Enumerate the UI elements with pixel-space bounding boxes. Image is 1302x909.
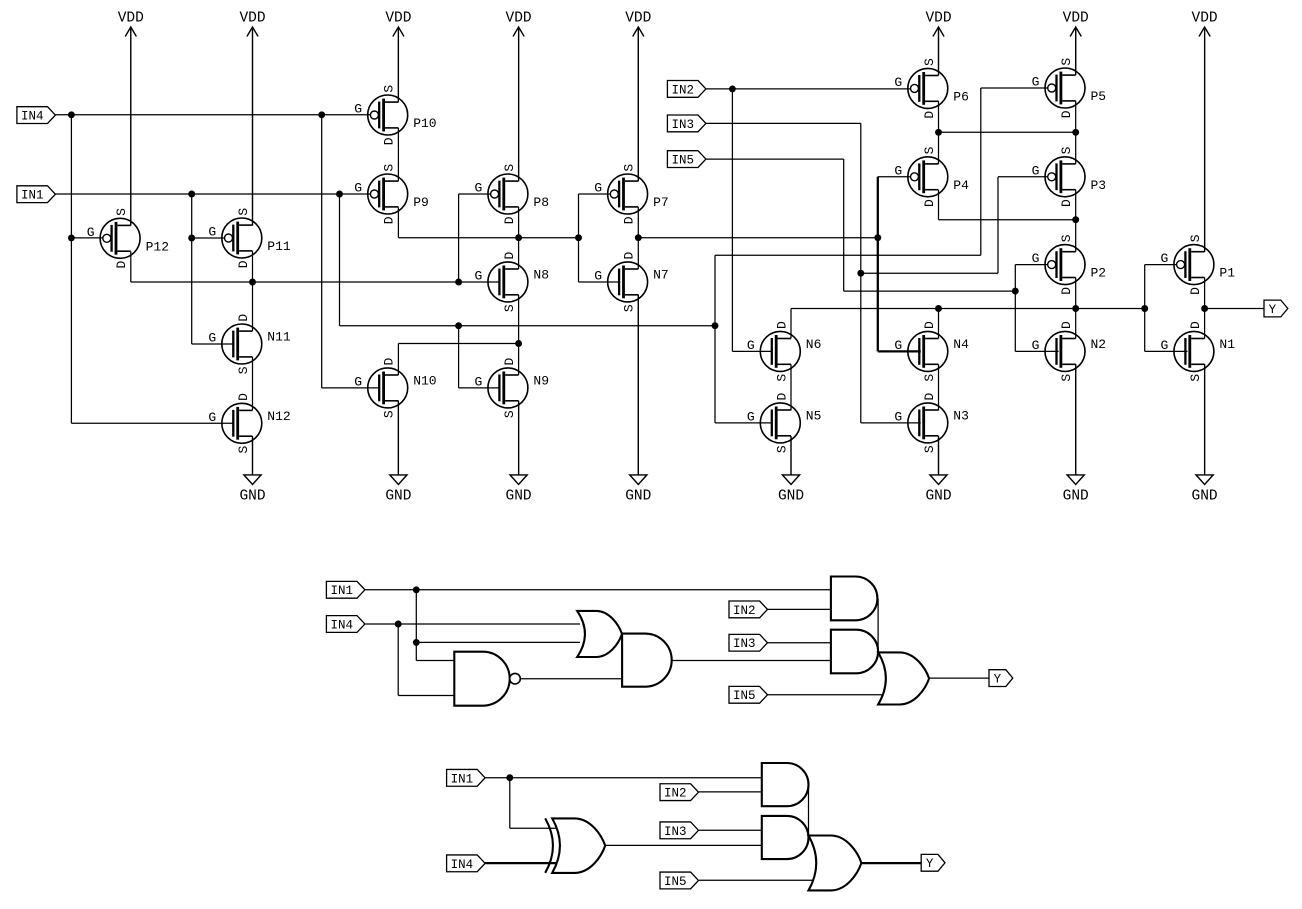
junction P11 gate: [188, 235, 195, 242]
input label IN2 (bot IN2): [660, 784, 699, 801]
wire node A to P8 gate: [459, 193, 491, 195]
wire rail3 P10 drain to P9 source: [397, 128, 399, 181]
power symbol GND (rail5): [625, 295, 651, 505]
wire VDD rail 6: [938, 27, 940, 75]
wire node D to P1 gate: [1145, 264, 1177, 266]
junction IN1 second branch: [336, 191, 343, 198]
svg-text:IN5: IN5: [664, 875, 687, 889]
svg-text:GND: GND: [625, 489, 651, 505]
input label IN1 (bot IN1): [447, 769, 486, 786]
wire mid IN1 to OR input: [416, 641, 580, 643]
svg-text:D: D: [236, 260, 251, 268]
svg-text:G: G: [354, 102, 362, 117]
svg-text:D: D: [382, 216, 397, 224]
and gate U3: [622, 634, 672, 687]
wire mid AND2 output: [672, 660, 831, 662]
svg-text:Y: Y: [1269, 303, 1277, 317]
transistor P6 (PMOS): [894, 58, 969, 119]
junction IN4 line: [68, 111, 75, 118]
wire IN5 to P2 gate: [1015, 264, 1047, 266]
svg-text:D: D: [502, 252, 517, 260]
wire rail4 N8 source to N9 drain: [518, 295, 520, 375]
wire rail7 P5 drain to P3 source: [1075, 101, 1077, 164]
transistor P7 (PMOS): [594, 164, 669, 225]
wire IN1 vertical drop: [191, 194, 193, 344]
svg-text:G: G: [594, 181, 602, 196]
svg-text:IN4: IN4: [330, 618, 353, 632]
wire IN1 vertical to P5: [980, 88, 982, 255]
svg-text:S: S: [774, 445, 789, 453]
junction P12 gate: [68, 234, 75, 241]
transistor N4 (NMOS): [894, 321, 969, 382]
junction node D inverter input: [1141, 305, 1148, 312]
input label IN5 (mid IN5): [729, 686, 768, 703]
transistor P2 (PMOS): [1032, 234, 1107, 295]
junction mid IN1 branch: [413, 639, 420, 646]
wire IN1 to N9 gate: [459, 387, 501, 389]
wire bot IN1 vertical: [509, 778, 511, 829]
or gate U2: [577, 611, 622, 657]
svg-text:G: G: [894, 338, 902, 353]
svg-text:P12: P12: [146, 239, 169, 254]
power symbol GND (rail8): [1192, 364, 1218, 504]
power symbol VDD (rail5): [625, 11, 651, 182]
wire IN1 horizontal to P9 gate: [55, 193, 370, 195]
wire rail7 P3 drain to P2 source: [1075, 190, 1077, 252]
wire VDD rail 3: [397, 27, 399, 102]
output label Y (bot Y): [921, 854, 945, 871]
junction mid IN4: [395, 621, 402, 628]
svg-text:S: S: [114, 208, 129, 216]
svg-text:D: D: [502, 216, 517, 224]
junction IN3 branch: [857, 270, 864, 277]
junction node C rail5: [635, 234, 642, 241]
svg-text:G: G: [208, 225, 216, 240]
junction node D N4 drain: [935, 305, 942, 312]
svg-text:P5: P5: [1091, 89, 1107, 104]
svg-text:S: S: [1059, 374, 1074, 382]
wire mid IN1 to AND gate: [365, 589, 831, 591]
wire mid AND to OR3: [877, 598, 879, 652]
input label IN3 (top IN3): [667, 115, 706, 132]
input label IN5 (bot IN5): [660, 872, 699, 889]
svg-text:G: G: [894, 409, 902, 424]
svg-text:G: G: [474, 181, 482, 196]
svg-text:S: S: [382, 164, 397, 172]
wire rail6 N3 source to GND: [938, 436, 940, 475]
power symbol GND (rail3): [385, 401, 411, 505]
power symbol GND (rail4): [506, 401, 532, 505]
junction node A rail2: [249, 279, 256, 286]
svg-text:G: G: [208, 410, 216, 425]
wire VDD rail 1: [130, 27, 132, 225]
wire VDD rail 2: [252, 27, 254, 225]
svg-text:GND: GND: [778, 489, 804, 505]
svg-text:D: D: [114, 261, 129, 269]
or gate U6 (3-input): [878, 652, 929, 704]
transistor N1 (NMOS): [1160, 321, 1235, 382]
wire VDD rail 5: [637, 27, 639, 181]
svg-text:VDD: VDD: [506, 11, 532, 27]
svg-text:S: S: [1188, 234, 1203, 242]
wire node A horizontal: [131, 281, 501, 283]
wire IN2 vertical: [731, 89, 733, 352]
wire rail4 P8 drain to N8 drain: [518, 207, 520, 269]
svg-text:D: D: [922, 321, 937, 329]
input label IN4 (bot IN4): [447, 855, 486, 872]
wire mid IN3 to AND: [768, 642, 831, 644]
svg-text:N4: N4: [953, 337, 969, 352]
svg-text:GND: GND: [1063, 489, 1089, 505]
wire N5 source to GND: [790, 436, 792, 475]
svg-text:G: G: [1032, 338, 1040, 353]
junction mid IN1: [413, 586, 420, 593]
svg-text:P3: P3: [1091, 178, 1107, 193]
svg-text:D: D: [922, 199, 937, 207]
transistor N10 (NMOS): [354, 358, 436, 419]
svg-text:GND: GND: [925, 489, 951, 505]
svg-text:D: D: [236, 393, 251, 401]
transistor P4 (PMOS): [894, 146, 969, 207]
wire IN4 vertical drop: [70, 115, 72, 424]
wire node B horizontal: [398, 237, 578, 239]
wire rail8 N1 source to GND: [1204, 364, 1206, 475]
svg-text:N10: N10: [413, 373, 436, 388]
wire IN1 to P5 gate: [981, 87, 1048, 89]
wire IN3 horizontal branch: [861, 272, 998, 274]
junction bot IN1: [506, 774, 513, 781]
junction node A P8 branch: [455, 279, 462, 286]
svg-text:IN1: IN1: [451, 772, 474, 786]
input label IN5 (top IN5): [667, 151, 706, 168]
svg-text:S: S: [622, 164, 637, 172]
wire rail3 N10 source to GND: [397, 401, 399, 475]
svg-text:IN5: IN5: [671, 154, 694, 168]
wire bot IN5 to OR: [699, 879, 818, 881]
svg-text:D: D: [622, 252, 637, 260]
wire N6 source to N5 drain: [790, 364, 792, 410]
svg-text:S: S: [502, 410, 517, 418]
junction IN4 to N10 branch: [318, 111, 325, 118]
svg-text:S: S: [1059, 58, 1074, 66]
transistor P10 (PMOS): [354, 85, 436, 146]
svg-text:IN3: IN3: [664, 825, 687, 839]
svg-text:D: D: [774, 321, 789, 329]
svg-text:G: G: [208, 331, 216, 346]
svg-text:G: G: [747, 409, 755, 424]
wire node B to P7 gate: [579, 193, 611, 195]
wire rail8 P1 drain to N1 drain: [1204, 278, 1206, 339]
svg-text:D: D: [1059, 199, 1074, 207]
svg-text:N1: N1: [1219, 337, 1235, 352]
svg-text:VDD: VDD: [239, 11, 265, 27]
transistor P9 (PMOS): [354, 164, 429, 225]
svg-text:S: S: [1188, 374, 1203, 382]
wire bot OR output to Y: [861, 862, 921, 864]
power symbol VDD (rail6): [925, 11, 951, 76]
svg-text:D: D: [622, 216, 637, 224]
svg-text:S: S: [622, 304, 637, 312]
junction node B rail4: [515, 234, 522, 241]
wire rail2 N11 source to N12 drain: [252, 357, 254, 411]
wire P12 drain down: [130, 252, 132, 283]
wire rail4 N9 source to GND: [518, 401, 520, 475]
svg-text:VDD: VDD: [1192, 11, 1218, 27]
junction node D rail7: [1072, 305, 1079, 312]
wire IN5 vertical short: [1014, 265, 1016, 352]
wire IN5 horizontal: [706, 158, 844, 160]
junction IN5 branch: [1012, 288, 1019, 295]
transistor P5 (PMOS): [1032, 58, 1107, 119]
wire IN1 horizontal to P5 branch: [715, 254, 981, 256]
wire bot IN1 to XOR input: [510, 827, 556, 829]
svg-text:S: S: [236, 446, 251, 454]
power symbol VDD (rail7): [1063, 11, 1089, 76]
svg-text:G: G: [87, 225, 95, 240]
and gate U8: [762, 763, 809, 806]
svg-text:G: G: [1032, 163, 1040, 178]
junction P5 drain: [1072, 129, 1079, 136]
wire rail6 N4 source to N3 drain: [938, 364, 940, 410]
wire mid NAND output: [520, 678, 622, 680]
wire mid OR3 output to Y: [929, 677, 989, 679]
svg-text:IN1: IN1: [330, 584, 353, 598]
svg-text:G: G: [894, 163, 902, 178]
transistor P1 (PMOS): [1160, 234, 1235, 295]
wire IN4 to N10 gate: [322, 387, 381, 389]
wire node B vertical: [578, 194, 580, 282]
svg-text:G: G: [594, 268, 602, 283]
wire IN1 second vertical: [339, 194, 341, 326]
output label Y (top Y): [1264, 300, 1288, 317]
svg-text:IN4: IN4: [451, 858, 474, 872]
input label IN1 (mid IN1): [326, 581, 365, 598]
wire IN5 horizontal branch: [844, 290, 1016, 292]
wire rail6 P6 drain to P4 source: [938, 101, 940, 164]
wire mid IN2 to AND: [768, 608, 831, 610]
power symbol GND (rail2): [239, 436, 265, 504]
svg-text:S: S: [1059, 146, 1074, 154]
input label IN1 (top IN1): [17, 186, 56, 203]
svg-text:Y: Y: [926, 857, 934, 871]
wire mid to NAND input A: [416, 660, 454, 662]
svg-text:P11: P11: [267, 239, 291, 254]
svg-text:P10: P10: [413, 116, 436, 131]
power symbol VDD (rail4): [506, 11, 532, 182]
wire IN1 long horizontal: [340, 325, 716, 327]
wire N6 drain up: [790, 309, 792, 339]
svg-text:IN3: IN3: [671, 118, 694, 132]
junction IN1 line: [188, 191, 195, 198]
junction N8 source node: [515, 340, 522, 347]
svg-text:GND: GND: [239, 489, 265, 505]
svg-text:IN2: IN2: [671, 83, 694, 97]
svg-text:D: D: [502, 358, 517, 366]
svg-text:VDD: VDD: [925, 11, 951, 27]
svg-text:S: S: [1059, 234, 1074, 242]
svg-text:N5: N5: [806, 408, 822, 423]
transistor P12 (PMOS): [87, 208, 169, 269]
svg-text:GND: GND: [506, 489, 532, 505]
svg-text:D: D: [1059, 287, 1074, 295]
wire IN2 to N6 gate: [732, 350, 772, 352]
svg-text:VDD: VDD: [118, 11, 144, 27]
svg-text:G: G: [747, 338, 755, 353]
power symbol VDD (rail8): [1192, 11, 1218, 252]
power symbol GND (rail6): [925, 436, 951, 504]
junction P6 drain: [935, 129, 942, 136]
input label IN4 (top IN4): [17, 107, 56, 124]
junction IN1 mid vertical: [712, 322, 719, 329]
wire P6-P5 drain tie: [939, 131, 1076, 133]
svg-text:P4: P4: [953, 178, 969, 193]
svg-text:N3: N3: [953, 408, 969, 423]
svg-text:S: S: [922, 146, 937, 154]
svg-text:G: G: [474, 268, 482, 283]
transistor P3 (PMOS): [1032, 146, 1107, 207]
svg-text:N6: N6: [806, 337, 822, 352]
svg-text:D: D: [774, 393, 789, 401]
wire node C bold vertical: [877, 177, 879, 352]
svg-text:S: S: [236, 208, 251, 216]
svg-text:P6: P6: [953, 89, 969, 104]
wire IN3 vertical to P3: [997, 177, 999, 273]
svg-text:GND: GND: [385, 489, 411, 505]
output label Y (mid Y): [989, 670, 1013, 687]
transistor N9 (NMOS): [474, 358, 549, 419]
wire node C to P4 gate: [878, 176, 912, 178]
svg-text:IN5: IN5: [733, 689, 756, 703]
wire IN5 vertical: [843, 159, 845, 291]
transistor N2 (NMOS): [1032, 321, 1107, 382]
svg-text:IN4: IN4: [21, 110, 44, 124]
svg-text:Y: Y: [994, 673, 1002, 687]
svg-text:D: D: [922, 393, 937, 401]
wire IN1 to P11 gate: [192, 237, 225, 239]
wire IN3 horizontal: [706, 122, 861, 124]
wire mid IN1 vertical: [415, 590, 417, 661]
svg-text:S: S: [236, 366, 251, 374]
wire IN1 vertical to N9: [458, 326, 460, 388]
wire N10 drain up: [397, 344, 399, 376]
junction IN2 line: [729, 85, 736, 92]
svg-text:GND: GND: [1192, 489, 1218, 505]
wire IN1 to N5 gate: [715, 422, 773, 424]
wire rail5 N7 source to GND: [637, 295, 639, 475]
input label IN3 (mid IN3): [729, 634, 768, 651]
wire IN3 vertical: [860, 123, 862, 423]
wire N10 drain to node: [398, 343, 518, 345]
svg-text:G: G: [1032, 251, 1040, 266]
junction node C bold vertical: [874, 234, 881, 241]
or gate U10 (3-input): [809, 836, 862, 891]
svg-text:P9: P9: [413, 195, 429, 210]
wire rail2 P11 drain to N11 drain: [252, 251, 254, 331]
svg-text:N9: N9: [533, 373, 549, 388]
svg-text:G: G: [1160, 338, 1168, 353]
svg-text:S: S: [382, 85, 397, 93]
svg-text:D: D: [1059, 110, 1074, 118]
wire rail2 N12 source to GND: [252, 436, 254, 475]
wire IN4 to P12 gate: [71, 237, 102, 239]
wire bot IN2 to AND: [699, 791, 762, 793]
wire node B to N7 gate: [579, 281, 621, 283]
wire IN4 vertical to N10: [321, 115, 323, 388]
svg-text:D: D: [1188, 287, 1203, 295]
svg-text:S: S: [774, 374, 789, 382]
junction node B P7/N7 branch: [575, 234, 582, 241]
junction Y rail8: [1201, 305, 1208, 312]
transistor N3 (NMOS): [894, 393, 969, 454]
power symbol GND (gnd rail): [778, 436, 804, 504]
svg-text:N12: N12: [267, 409, 290, 424]
wire bot AND to OR: [808, 785, 810, 836]
wire IN1 vertical mid: [714, 255, 716, 423]
svg-text:G: G: [474, 374, 482, 389]
transistor N11 (NMOS): [208, 314, 291, 375]
input label IN2 (mid IN2): [729, 601, 768, 618]
wire bot IN3 to AND: [699, 829, 762, 831]
wire node C horizontal: [638, 237, 878, 239]
transistor P8 (PMOS): [474, 164, 549, 225]
and gate U5: [831, 630, 878, 674]
svg-text:G: G: [1160, 251, 1168, 266]
transistor N5 (NMOS): [747, 393, 822, 454]
wire rail7 N2 source to GND: [1075, 364, 1077, 475]
wire VDD rail 4: [518, 27, 520, 181]
svg-text:N7: N7: [653, 267, 669, 282]
svg-text:N2: N2: [1091, 337, 1107, 352]
wire bot IN4 to XOR input: [484, 862, 563, 864]
power symbol GND (rail7): [1063, 364, 1089, 504]
wire IN4 horizontal to P10 gate: [55, 114, 370, 116]
transistor N6 (NMOS): [747, 321, 822, 382]
wire IN3 to N3 gate: [861, 422, 921, 424]
svg-text:N11: N11: [267, 330, 291, 345]
svg-text:G: G: [354, 181, 362, 196]
and gate U4: [831, 577, 877, 621]
input label IN2 (top IN2): [667, 81, 706, 98]
wire node D vertical to P1/N1 gates: [1144, 265, 1146, 352]
wire node D horizontal: [791, 308, 1145, 310]
wire IN4 to N12 gate: [71, 422, 233, 424]
transistor N7 (NMOS): [594, 252, 669, 313]
svg-text:VDD: VDD: [625, 11, 651, 27]
svg-text:D: D: [1188, 321, 1203, 329]
wire IN3 to P3 gate: [998, 176, 1048, 178]
transistor N12 (NMOS): [208, 393, 290, 454]
wire rail7 P2 drain to N2 drain: [1075, 278, 1077, 339]
svg-text:P7: P7: [653, 195, 669, 210]
svg-text:D: D: [382, 137, 397, 145]
svg-text:N8: N8: [533, 267, 549, 282]
svg-text:G: G: [354, 374, 362, 389]
wire rail5 P7 drain to N7 drain: [637, 207, 639, 269]
svg-text:IN1: IN1: [21, 189, 44, 203]
nand gate U1 body: [454, 652, 520, 706]
svg-text:S: S: [382, 410, 397, 418]
wire bot XOR output: [605, 844, 762, 846]
svg-text:D: D: [236, 314, 251, 322]
and gate U9: [762, 816, 809, 859]
wire VDD rail 7: [1075, 27, 1077, 75]
svg-text:G: G: [894, 75, 902, 90]
power symbol VDD (rail1): [118, 11, 144, 226]
wire mid IN4 vertical: [397, 624, 399, 696]
svg-text:VDD: VDD: [385, 11, 411, 27]
wire P9 drain down: [397, 207, 399, 237]
transistor N8 (NMOS): [474, 252, 549, 313]
